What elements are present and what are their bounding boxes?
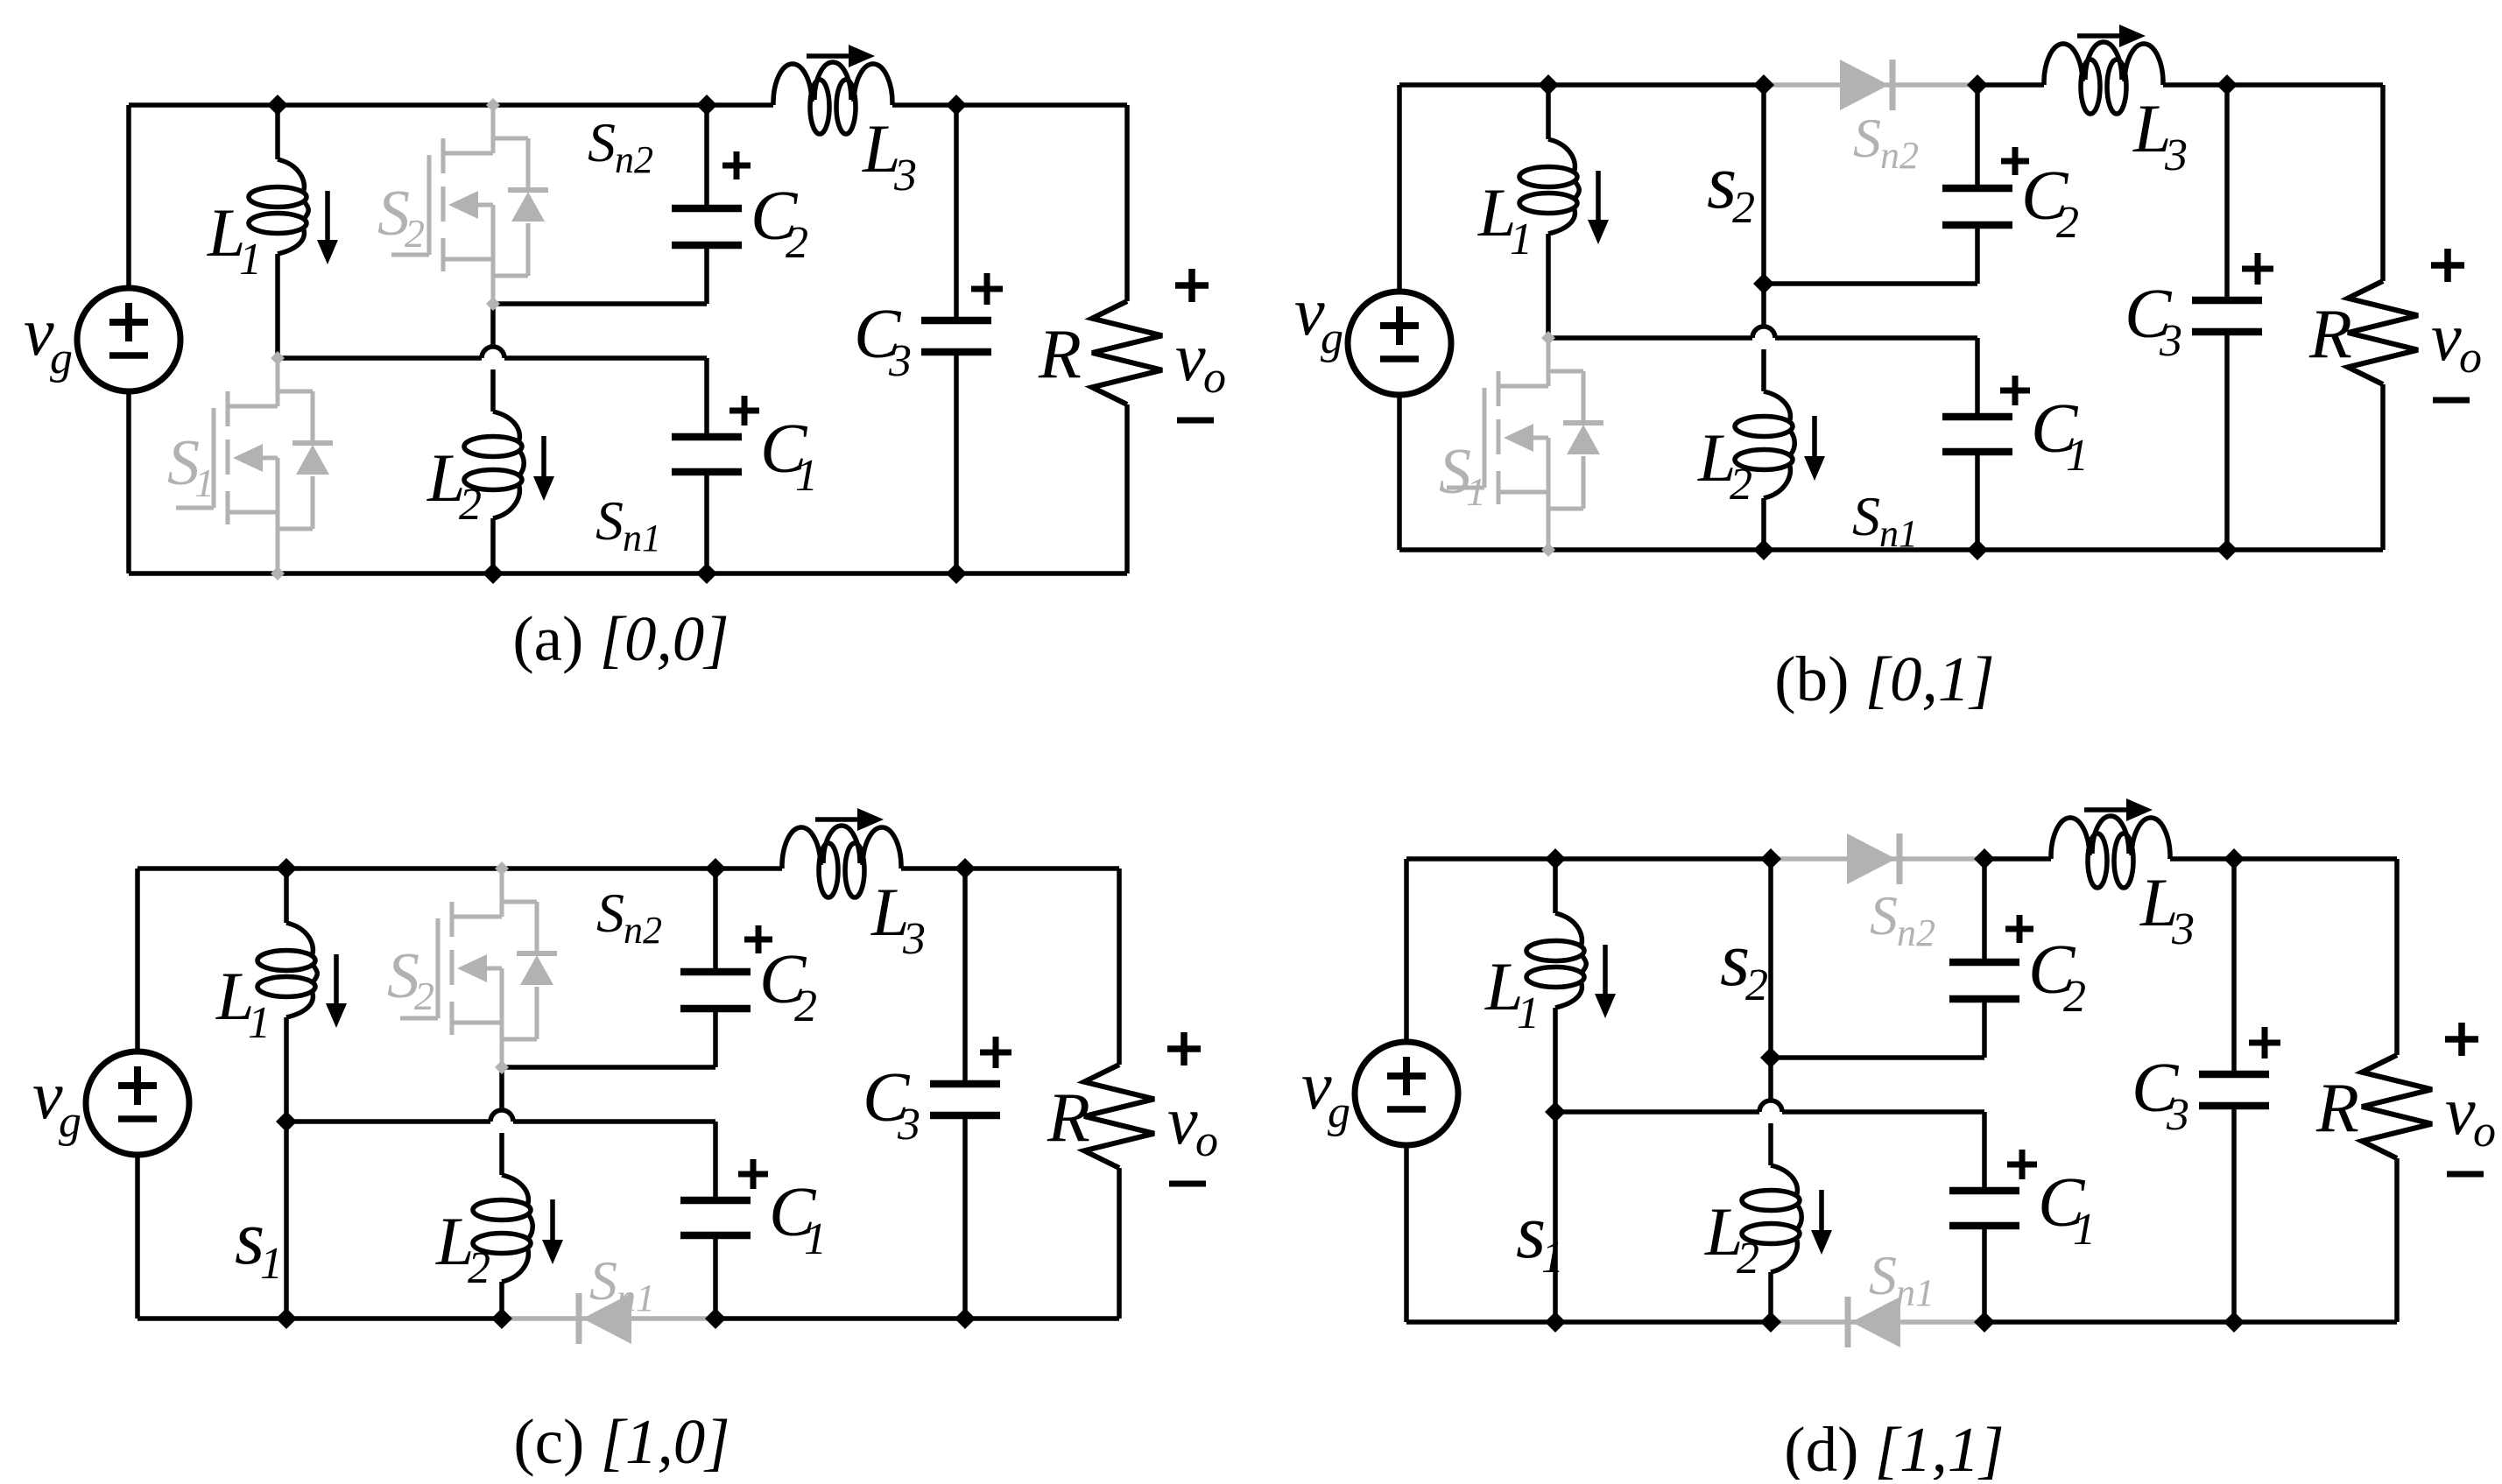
svg-text:v: v bbox=[1175, 319, 1206, 395]
svg-text:1: 1 bbox=[239, 235, 262, 285]
svg-text:1: 1 bbox=[194, 461, 215, 505]
svg-text:S: S bbox=[1869, 1244, 1897, 1306]
svg-text:n2: n2 bbox=[624, 909, 662, 952]
svg-text:S: S bbox=[596, 882, 624, 944]
svg-text:R: R bbox=[1047, 1080, 1090, 1157]
svg-text:1: 1 bbox=[795, 451, 818, 501]
svg-text:2: 2 bbox=[2063, 972, 2086, 1022]
svg-text:(b) [0,1]: (b) [0,1] bbox=[1774, 644, 1994, 714]
svg-text:o: o bbox=[2459, 333, 2482, 383]
svg-text:n1: n1 bbox=[1896, 1271, 1935, 1314]
svg-text:1: 1 bbox=[248, 998, 271, 1048]
svg-text:n1: n1 bbox=[617, 1277, 655, 1319]
svg-text:1: 1 bbox=[1510, 215, 1533, 264]
svg-text:g: g bbox=[1321, 313, 1343, 363]
svg-text:S: S bbox=[1870, 884, 1898, 946]
svg-text:g: g bbox=[59, 1097, 81, 1147]
svg-text:n2: n2 bbox=[1897, 911, 1935, 954]
svg-text:2: 2 bbox=[1745, 960, 1768, 1010]
svg-text:R: R bbox=[2308, 296, 2352, 373]
svg-text:2: 2 bbox=[405, 211, 425, 256]
svg-text:1: 1 bbox=[2073, 1205, 2096, 1255]
svg-text:2: 2 bbox=[1732, 183, 1755, 233]
svg-text:1: 1 bbox=[1517, 988, 1540, 1038]
svg-text:S: S bbox=[1852, 485, 1880, 547]
svg-text:n1: n1 bbox=[1879, 512, 1918, 555]
svg-text:(c) [1,0]: (c) [1,0] bbox=[513, 1406, 729, 1477]
svg-text:g: g bbox=[1328, 1087, 1350, 1137]
svg-text:v: v bbox=[2445, 1073, 2476, 1149]
svg-text:v: v bbox=[2431, 299, 2462, 375]
svg-text:o: o bbox=[2473, 1107, 2496, 1157]
svg-text:S: S bbox=[589, 1249, 617, 1312]
svg-text:1: 1 bbox=[804, 1214, 827, 1264]
svg-text:3: 3 bbox=[2171, 904, 2195, 954]
svg-text:3: 3 bbox=[2164, 130, 2188, 180]
svg-text:S: S bbox=[596, 489, 624, 552]
svg-text:1: 1 bbox=[1466, 469, 1486, 514]
svg-text:v: v bbox=[1167, 1082, 1198, 1158]
svg-text:1: 1 bbox=[1541, 1233, 1564, 1283]
svg-text:2: 2 bbox=[468, 1243, 490, 1293]
svg-text:(d) [1,1]: (d) [1,1] bbox=[1784, 1414, 2004, 1480]
svg-text:n1: n1 bbox=[623, 517, 661, 559]
svg-text:2: 2 bbox=[414, 974, 434, 1018]
svg-text:3: 3 bbox=[888, 336, 912, 386]
svg-text:2: 2 bbox=[1737, 1234, 1759, 1284]
svg-text:n2: n2 bbox=[615, 138, 653, 181]
svg-text:3: 3 bbox=[897, 1100, 920, 1150]
svg-text:o: o bbox=[1203, 353, 1226, 403]
svg-text:g: g bbox=[50, 334, 73, 383]
svg-text:(a) [0,0]: (a) [0,0] bbox=[512, 603, 729, 674]
svg-text:2: 2 bbox=[1730, 460, 1752, 510]
svg-text:1: 1 bbox=[260, 1239, 283, 1289]
svg-text:2: 2 bbox=[786, 218, 808, 268]
svg-text:1: 1 bbox=[2066, 431, 2089, 481]
svg-text:2: 2 bbox=[794, 981, 817, 1031]
svg-text:R: R bbox=[1038, 316, 1082, 393]
svg-text:2: 2 bbox=[459, 480, 482, 530]
svg-text:S: S bbox=[588, 111, 616, 173]
svg-text:n2: n2 bbox=[1880, 134, 1919, 177]
svg-text:3: 3 bbox=[902, 914, 926, 964]
svg-text:3: 3 bbox=[2159, 316, 2182, 366]
svg-text:3: 3 bbox=[2166, 1090, 2189, 1140]
svg-text:o: o bbox=[1195, 1116, 1218, 1166]
svg-text:R: R bbox=[2315, 1070, 2359, 1147]
svg-text:S: S bbox=[1853, 107, 1881, 169]
svg-text:3: 3 bbox=[893, 151, 917, 200]
svg-text:2: 2 bbox=[2056, 198, 2079, 248]
